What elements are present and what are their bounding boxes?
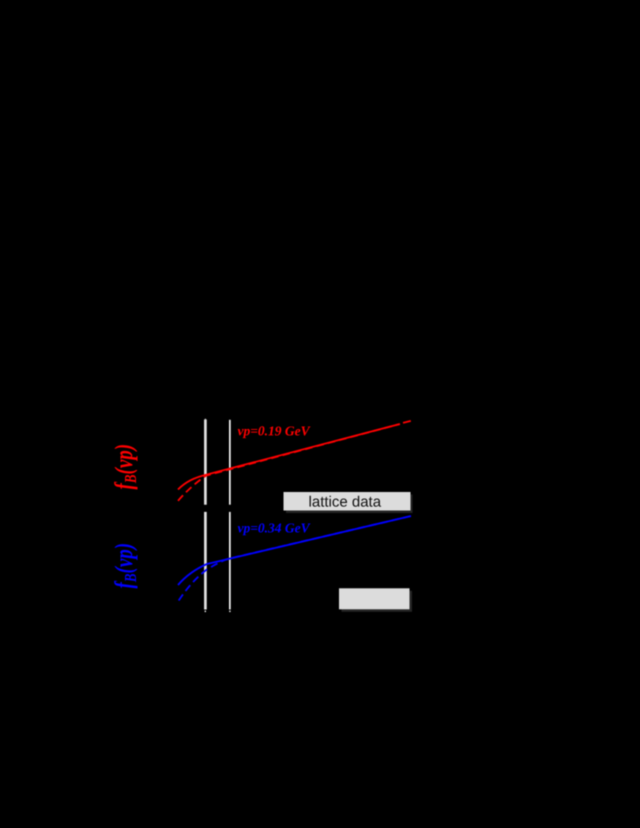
upper panel: white vertical line right [229, 420, 231, 505]
red curve label vp=0.19 GeV [237, 423, 310, 438]
blue dashed curve (asymptotic form, lower panel) [179, 516, 411, 601]
lower panel: white vertical line left [204, 512, 207, 612]
lattice data legend text [309, 494, 382, 511]
empty legend box shadow (lower panel) [342, 591, 413, 612]
upper panel: white vertical line left [204, 419, 207, 505]
red dashed curve (asymptotic form, upper panel) [178, 424, 400, 501]
red solid curve f_B(vp) at vp=0.19 GeV [178, 424, 400, 490]
svg-text:vp=0.34 GeV: vp=0.34 GeV [237, 520, 310, 535]
svg-text:vp=0.19 GeV: vp=0.19 GeV [237, 423, 310, 438]
blue solid curve f_B(vp) at vp=0.34 GeV [178, 516, 411, 585]
lattice data legend box [284, 492, 411, 511]
blue curve label vp=0.34 GeV [237, 520, 310, 535]
lattice data legend box shadow [286, 495, 413, 514]
svg-text:fB(vp): fB(vp) [109, 543, 140, 589]
lower panel: white vertical line right [229, 512, 231, 612]
svg-text:lattice data: lattice data [309, 494, 382, 511]
svg-text:fB(vp): fB(vp) [109, 444, 140, 490]
red dashed curve final dash at right edge [403, 421, 411, 423]
empty legend box (lower panel) [339, 588, 410, 609]
